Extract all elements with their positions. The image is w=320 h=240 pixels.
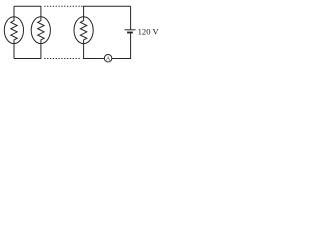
wire right upper (to battery) xyxy=(130,6,132,29)
wire bottom (ammeter to lamp 3) xyxy=(83,58,104,60)
lamp 2 (resistor in bulb) xyxy=(31,6,50,58)
lamp 3 (resistor in bulb) xyxy=(74,6,93,58)
wire top-right segment xyxy=(83,5,131,7)
svg-text:120 V: 120 V xyxy=(138,27,160,37)
ammeter A xyxy=(104,55,112,63)
wire top-left segment xyxy=(14,5,41,7)
wire top dashed (continuation) xyxy=(44,5,82,7)
battery short plate (-) xyxy=(127,32,133,34)
battery long plate (+) xyxy=(125,29,136,31)
wire right lower (battery to bottom corner) xyxy=(112,33,131,58)
wire bottom dashed (continuation) xyxy=(44,58,81,60)
lamp 1 (resistor in bulb) xyxy=(4,6,23,58)
wire bottom-left segment xyxy=(14,58,41,60)
